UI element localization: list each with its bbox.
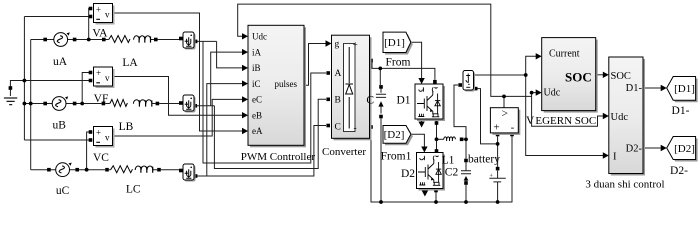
svg-text:3 duan shi control: 3 duan shi control — [585, 178, 664, 190]
svg-text:eC: eC — [252, 95, 262, 105]
svg-text:From1: From1 — [381, 150, 412, 162]
svg-text:-: - — [511, 122, 515, 134]
svg-text:v: v — [105, 133, 110, 143]
svg-text:Udc: Udc — [544, 88, 561, 99]
svg-text:+: + — [96, 5, 101, 15]
svg-text:+: + — [96, 68, 101, 78]
svg-text:battery: battery — [468, 154, 500, 166]
svg-text:C: C — [366, 95, 374, 107]
svg-text:Current: Current — [549, 49, 580, 60]
svg-text:SOC: SOC — [611, 71, 631, 82]
svg-text:+: + — [493, 122, 499, 134]
svg-text:+: + — [96, 128, 101, 138]
svg-text:D1-: D1- — [626, 83, 643, 94]
svg-text:eB: eB — [252, 110, 262, 120]
svg-text:[D2]: [D2] — [384, 129, 405, 141]
svg-text:I: I — [613, 152, 617, 163]
svg-text:VA: VA — [92, 28, 108, 40]
svg-text:+: + — [353, 41, 358, 51]
svg-text:pulses: pulses — [275, 79, 298, 89]
svg-text:LB: LB — [119, 121, 134, 133]
svg-text:Converter: Converter — [322, 146, 366, 158]
svg-text:>: > — [502, 108, 509, 120]
svg-text:L1: L1 — [442, 155, 455, 167]
svg-text:iC: iC — [252, 79, 261, 89]
svg-text:D1-: D1- — [672, 105, 690, 117]
svg-text:V: V — [526, 115, 535, 127]
svg-text:C2: C2 — [445, 167, 459, 179]
svg-text:D1: D1 — [396, 95, 410, 107]
svg-text:iB: iB — [252, 63, 261, 73]
svg-text:SOC: SOC — [565, 70, 592, 85]
svg-text:eA: eA — [252, 126, 263, 136]
svg-text:From: From — [386, 56, 411, 68]
svg-text:LC: LC — [126, 183, 141, 195]
svg-text:[D1]: [D1] — [384, 37, 405, 49]
svg-text:VC: VC — [93, 152, 109, 164]
svg-text:Udc: Udc — [252, 32, 267, 42]
svg-text:VF: VF — [94, 93, 109, 105]
svg-text:B: B — [335, 96, 341, 106]
svg-text:[D2]: [D2] — [674, 143, 695, 155]
svg-text:D2: D2 — [401, 168, 415, 180]
svg-text:v: v — [105, 10, 110, 20]
svg-text:Udc: Udc — [611, 112, 629, 123]
svg-text:[D1]: [D1] — [674, 83, 695, 95]
svg-text:uA: uA — [53, 56, 68, 68]
svg-text:iA: iA — [252, 47, 262, 57]
svg-text:A: A — [335, 69, 342, 79]
svg-text:D2-: D2- — [670, 165, 688, 177]
svg-text:-: - — [354, 124, 357, 134]
svg-text:LA: LA — [122, 57, 138, 69]
svg-text:D2-: D2- — [626, 144, 643, 155]
svg-text:v: v — [105, 73, 110, 83]
svg-text:uB: uB — [52, 119, 66, 131]
svg-text:g: g — [335, 40, 340, 50]
svg-text:EGERN SOC: EGERN SOC — [535, 115, 596, 127]
svg-text:PWM Controller: PWM Controller — [241, 151, 316, 163]
svg-text:uC: uC — [56, 185, 70, 197]
svg-text:C: C — [335, 123, 341, 133]
